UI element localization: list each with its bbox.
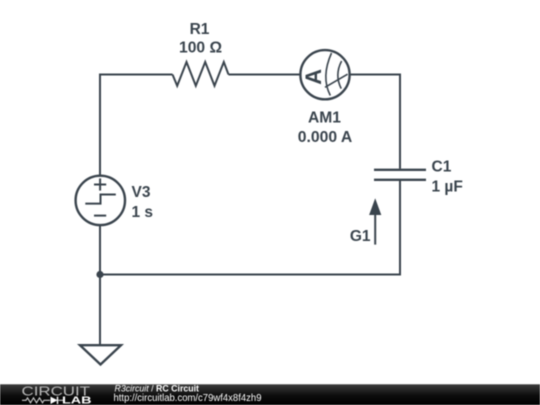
wire: source bottom to junction (99, 225, 101, 275)
label R1 (190, 21, 210, 38)
label G1 (350, 228, 371, 245)
svg-text:A: A (301, 69, 326, 85)
svg-text:C1: C1 (432, 159, 452, 176)
resistor R1 (173, 62, 229, 86)
CircuitLab logo CIRCUIT (22, 385, 91, 399)
svg-text:100 Ω: 100 Ω (179, 40, 222, 57)
CircuitLab logo resistor-diode line (22, 397, 63, 404)
svg-text:1 s: 1 s (132, 204, 154, 221)
svg-text:V3: V3 (132, 184, 151, 201)
svg-text:R3circuit / RC Circuit: R3circuit / RC Circuit (115, 383, 200, 393)
CircuitLab logo LAB (62, 396, 92, 405)
svg-text:LAB: LAB (62, 396, 92, 405)
ammeter AM1 (300, 50, 349, 99)
svg-text:1 µF: 1 µF (432, 178, 463, 195)
svg-text:0.000 A: 0.000 A (298, 129, 353, 146)
current arrow G1 (369, 198, 381, 244)
wire: ammeter to capacitor (351, 75, 401, 169)
svg-text:G1: G1 (350, 228, 371, 245)
svg-text:http://circuitlab.com/c79wf4x8: http://circuitlab.com/c79wf4x8f4zh9 (114, 393, 262, 404)
label V3 (132, 184, 151, 201)
label C1 (432, 159, 452, 176)
value 100 Ω (179, 40, 222, 57)
svg-text:AM1: AM1 (308, 110, 341, 127)
value 1 µF (432, 178, 463, 195)
junction node (96, 271, 103, 278)
ground (80, 345, 121, 364)
capacitor C1 (374, 170, 426, 180)
wire: left branch (top corner) (100, 75, 173, 177)
label AM1 (308, 110, 341, 127)
voltage source V3 (76, 176, 125, 225)
value 1 s (132, 204, 154, 221)
footer title text (115, 383, 200, 393)
svg-text:R1: R1 (190, 21, 210, 38)
wire: capacitor to bottom rail (100, 181, 400, 275)
wire: resistor to ammeter (229, 74, 300, 76)
wire: junction to ground (99, 275, 101, 346)
footer bar (0, 384, 540, 405)
footer url text (114, 393, 262, 404)
value 0.000 A (298, 129, 353, 146)
